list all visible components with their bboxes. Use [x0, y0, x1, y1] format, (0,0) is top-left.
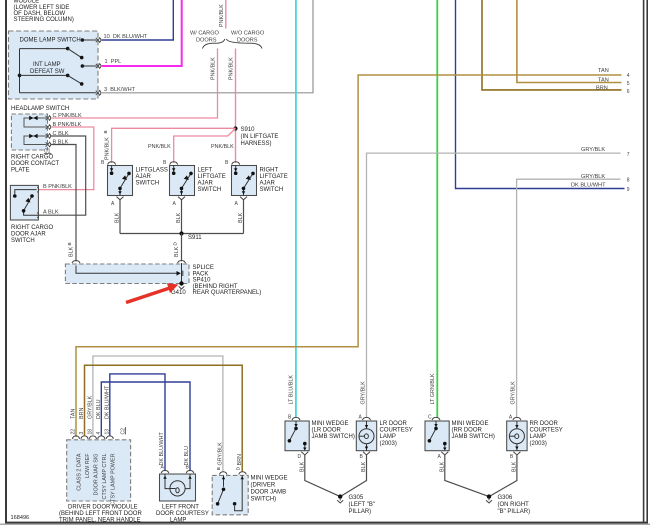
RR door courtesy lamp — [507, 414, 563, 460]
svg-text:8: 8 — [627, 178, 630, 184]
wire B PNK/BLK — [38, 127, 93, 190]
svg-text:HEADLAMP SWITCH: HEADLAMP SWITCH — [11, 106, 69, 112]
ground G306 — [486, 494, 530, 515]
svg-text:LOW REF: LOW REF — [85, 453, 91, 478]
svg-text:G305: G305 — [349, 495, 364, 501]
svg-text:S911: S911 — [188, 235, 202, 241]
wire BLK liftglass to S911 — [119, 200, 121, 234]
svg-text:S910: S910 — [241, 127, 256, 133]
svg-text:9: 9 — [627, 187, 630, 193]
svg-text:LIFTGATE: LIFTGATE — [260, 174, 288, 180]
ground G305 — [337, 494, 375, 515]
svg-text:(2003): (2003) — [530, 441, 547, 447]
svg-text:W/O CARGO: W/O CARGO — [231, 31, 265, 37]
svg-text:DOOR CONTACT: DOOR CONTACT — [11, 161, 60, 167]
wire DK BLU module to lamp B — [101, 382, 190, 471]
svg-text:B: B — [103, 130, 108, 133]
svg-text:BLK: BLK — [115, 212, 121, 223]
svg-text:SWITCH: SWITCH — [136, 181, 160, 187]
svg-text:INT LAMP: INT LAMP — [33, 62, 61, 68]
wire C BLK — [38, 136, 85, 215]
svg-text:(LR DOOR: (LR DOOR — [312, 428, 342, 434]
svg-text:SP410: SP410 — [193, 278, 212, 284]
svg-text:BLK: BLK — [299, 461, 305, 472]
svg-text:PNK/BLK: PNK/BLK — [105, 137, 111, 160]
svg-text:CLASS 2 DATA: CLASS 2 DATA — [77, 453, 83, 491]
wire PNK/BLK S910 to left liftgate — [174, 129, 236, 164]
svg-text:DK BLU/WHT: DK BLU/WHT — [159, 432, 165, 466]
wire GRY/BLK RR lamp to pin 8 — [511, 174, 630, 417]
wire DK BLU/WHT module to lamp A — [110, 374, 165, 471]
wire LT GRN/BLK — [430, 0, 437, 418]
wire GRY/BLK LR lamp to pin 7 — [361, 147, 630, 417]
svg-text:SWITCH: SWITCH — [260, 187, 284, 193]
svg-text:PNK/BLK: PNK/BLK — [219, 4, 225, 27]
wire BLK left liftgate to S911 — [181, 200, 183, 234]
LR door jamb switch — [285, 414, 355, 460]
svg-text:W/ CARGO: W/ CARGO — [190, 31, 220, 37]
svg-text:BLK: BLK — [511, 461, 517, 472]
svg-text:GRY/BLK: GRY/BLK — [217, 442, 223, 466]
svg-text:B: B — [67, 242, 72, 245]
wire BLK right liftgate to S911 — [243, 200, 245, 234]
svg-text:BRN: BRN — [596, 85, 608, 91]
label B BLK at splice — [67, 242, 74, 257]
svg-text:TAN: TAN — [598, 77, 609, 83]
svg-text:AJAR: AJAR — [136, 174, 152, 180]
svg-text:JAMB SWITCH): JAMB SWITCH) — [312, 434, 355, 440]
svg-text:PILLAR): PILLAR) — [349, 509, 372, 515]
svg-text:SWITCH): SWITCH) — [251, 497, 277, 503]
svg-text:PNK/BLK: PNK/BLK — [210, 57, 216, 80]
wire BLK LR lamp to G305 — [340, 455, 367, 497]
svg-text:DOOR AJAR: DOOR AJAR — [11, 232, 46, 238]
svg-text:PLATE: PLATE — [11, 168, 30, 174]
svg-text:SPLICE: SPLICE — [193, 265, 214, 271]
wire BRN to pin 6 — [482, 0, 630, 95]
svg-text:RIGHT: RIGHT — [260, 168, 279, 174]
wire PNK/BLK W/O cargo to S910 and right liftgate — [235, 49, 237, 164]
svg-text:BRN: BRN — [237, 454, 243, 465]
svg-text:LEFT FRONT: LEFT FRONT — [162, 505, 199, 511]
svg-text:TAN: TAN — [71, 409, 77, 419]
pin 10 — [96, 37, 101, 95]
svg-text:DEFEAT SW: DEFEAT SW — [30, 69, 65, 75]
svg-text:CTSY LAMP POWER: CTSY LAMP POWER — [110, 453, 116, 505]
wire DK BLU/WHT to pin 9 — [456, 0, 630, 193]
svg-text:G306: G306 — [498, 495, 513, 501]
right cargo door ajar switch — [10, 184, 72, 220]
svg-text:LAMP: LAMP — [380, 434, 396, 440]
wire PPL pin 1 — [102, 0, 182, 66]
svg-text:RIGHT CARGO: RIGHT CARGO — [11, 155, 54, 161]
contact plate label — [11, 155, 60, 174]
svg-text:COURTESY: COURTESY — [530, 428, 563, 434]
svg-text:LIFTGLASS: LIFTGLASS — [136, 168, 168, 174]
wire TAN to pin 5 — [517, 0, 630, 87]
svg-text:BLK: BLK — [361, 461, 367, 472]
svg-text:DOME LAMP SWITCH: DOME LAMP SWITCH — [20, 38, 81, 44]
svg-text:(DRIVER: (DRIVER — [251, 483, 276, 489]
wire BLK RR lamp to G306 — [489, 455, 517, 497]
driver door jamb switch — [212, 442, 287, 515]
svg-text:LR DOOR: LR DOOR — [380, 421, 408, 427]
left front door courtesy lamp — [156, 432, 209, 524]
svg-text:168496: 168496 — [11, 515, 30, 521]
svg-text:GRY/BLK: GRY/BLK — [581, 174, 605, 180]
svg-text:B: B — [216, 467, 221, 470]
svg-text:(LEFT "B": (LEFT "B" — [349, 502, 376, 508]
svg-text:RR DOOR: RR DOOR — [530, 421, 559, 427]
svg-text:DK BLU: DK BLU — [184, 446, 190, 466]
wire BLK/WHT pin 3 — [102, 0, 314, 93]
module location note — [14, 0, 74, 23]
svg-text:MINI WEDGE: MINI WEDGE — [452, 421, 489, 427]
ajar switch label — [11, 225, 54, 244]
wire DK BLU/WHT pin 10 — [102, 0, 174, 40]
svg-text:JAMB SWITCH): JAMB SWITCH) — [452, 434, 495, 440]
svg-text:STEERING COLUMN): STEERING COLUMN) — [14, 17, 74, 23]
svg-text:C: C — [428, 414, 432, 420]
svg-text:B PNK/BLK: B PNK/BLK — [43, 184, 72, 190]
wire GRY/BLK module to driver jamb switch — [93, 356, 223, 472]
left liftgate ajar switch — [163, 160, 226, 207]
red annotation arrow — [126, 284, 177, 302]
svg-text:(BEHIND RIGHT: (BEHIND RIGHT — [193, 284, 238, 290]
svg-text:(ON RIGHT: (ON RIGHT — [498, 502, 530, 508]
wire BLK RR jamb to G306 — [439, 455, 489, 497]
svg-text:PACK: PACK — [193, 271, 209, 277]
svg-text:BLK: BLK — [238, 212, 244, 223]
node S911 — [179, 231, 202, 241]
branch W/ CARGO DOORS — [190, 0, 265, 80]
svg-text:LEFT: LEFT — [198, 168, 213, 174]
svg-text:SWITCH: SWITCH — [198, 187, 222, 193]
liftglass ajar switch — [101, 160, 168, 207]
svg-text:AJAR: AJAR — [260, 181, 276, 187]
svg-text:LT BLU/BLK: LT BLU/BLK — [289, 375, 295, 405]
svg-text:GRY/BLK: GRY/BLK — [361, 381, 367, 405]
svg-text:CTSY LAMP CTRL: CTSY LAMP CTRL — [102, 454, 108, 500]
driver door module — [59, 385, 142, 523]
svg-text:(RR DOOR: (RR DOOR — [452, 428, 483, 434]
svg-text:BLK: BLK — [176, 212, 182, 223]
svg-text:10 DK BLU/WHT: 10 DK BLU/WHT — [104, 34, 148, 40]
svg-text:22: 22 — [71, 429, 77, 435]
svg-text:(BEHIND LEFT FRONT DOOR: (BEHIND LEFT FRONT DOOR — [59, 511, 142, 517]
svg-text:6: 6 — [627, 89, 630, 95]
svg-text:GRY/BLK: GRY/BLK — [511, 381, 517, 405]
svg-text:"B" PILLAR): "B" PILLAR) — [498, 509, 531, 515]
svg-text:AJAR: AJAR — [198, 181, 214, 187]
svg-text:5: 5 — [627, 81, 630, 87]
svg-text:DOORS: DOORS — [196, 38, 217, 44]
svg-text:TAN: TAN — [598, 68, 609, 74]
svg-text:7: 7 — [627, 152, 630, 158]
svg-text:DK BLU/WHT: DK BLU/WHT — [571, 183, 606, 189]
svg-text:BLK: BLK — [68, 246, 74, 257]
svg-text:DRIVER DOOR MODULE: DRIVER DOOR MODULE — [68, 505, 138, 511]
svg-text:DOOR JAMB: DOOR JAMB — [251, 490, 287, 496]
svg-text:PNK/BLK: PNK/BLK — [148, 144, 171, 150]
svg-text:BLK: BLK — [174, 246, 180, 257]
svg-text:MINI WEDGE: MINI WEDGE — [251, 476, 288, 482]
svg-text:MINI WEDGE: MINI WEDGE — [312, 421, 349, 427]
svg-text:4: 4 — [627, 73, 630, 79]
svg-text:A BLK: A BLK — [43, 209, 59, 215]
svg-text:REAR QUARTERPANEL): REAR QUARTERPANEL) — [193, 290, 262, 296]
svg-text:LAMP: LAMP — [530, 434, 546, 440]
svg-text:GRY/BLK: GRY/BLK — [581, 147, 605, 153]
svg-text:LIFTGATE: LIFTGATE — [198, 174, 226, 180]
svg-text:LT GRN/BLK: LT GRN/BLK — [430, 373, 436, 404]
right liftgate ajar switch — [225, 160, 288, 207]
svg-text:(2003): (2003) — [380, 441, 397, 447]
svg-text:PNK/BLK: PNK/BLK — [211, 144, 234, 150]
right cargo door contact plate — [11, 113, 82, 155]
splice pack SP410 — [65, 261, 261, 297]
wire PNK/BLK S910 to liftglass — [112, 128, 236, 163]
svg-text:SWITCH: SWITCH — [11, 238, 35, 244]
svg-text:1 PPL: 1 PPL — [105, 59, 122, 65]
wire BLK LR jamb to G305 — [299, 455, 340, 497]
node S910 — [233, 126, 278, 147]
svg-text:PNK/BLK: PNK/BLK — [228, 57, 234, 80]
RR door jamb switch — [425, 414, 495, 460]
svg-text:DOOR AJAR SIG: DOOR AJAR SIG — [93, 454, 99, 496]
ground G410 — [171, 281, 186, 296]
svg-text:(IN LIFTGATE: (IN LIFTGATE — [241, 134, 279, 140]
LR door courtesy lamp — [356, 414, 412, 460]
svg-text:HARNESS): HARNESS) — [241, 141, 272, 147]
wire TAN to pin 4 (from driver door module) — [76, 68, 630, 437]
svg-text:COURTESY: COURTESY — [380, 428, 413, 434]
dome lamp switch — [9, 31, 148, 99]
wire BRN module to driver jamb switch — [85, 365, 243, 472]
svg-text:DOOR COURTESY: DOOR COURTESY — [156, 511, 209, 517]
wire LT BLU/BLK — [289, 0, 296, 418]
wire D BLK S911 to splice pack — [173, 234, 182, 262]
svg-text:3 BLK/WHT: 3 BLK/WHT — [104, 87, 136, 93]
svg-text:D: D — [298, 454, 302, 460]
svg-text:G410: G410 — [171, 290, 186, 296]
svg-text:RIGHT CARGO: RIGHT CARGO — [11, 225, 54, 231]
svg-text:BLK: BLK — [439, 461, 445, 472]
wire BLK bus — [120, 233, 244, 235]
wire B BLK — [51, 145, 76, 262]
wire C PNK/BLK — [51, 49, 218, 119]
